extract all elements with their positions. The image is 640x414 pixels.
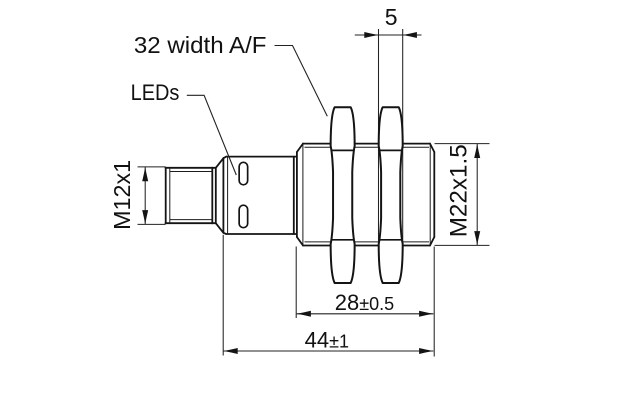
svg-text:5: 5 bbox=[385, 4, 398, 30]
svg-text:M12x1: M12x1 bbox=[109, 160, 135, 230]
svg-text:44±1: 44±1 bbox=[305, 328, 349, 353]
svg-text:32 width A/F: 32 width A/F bbox=[134, 32, 267, 58]
svg-text:28±0.5: 28±0.5 bbox=[335, 290, 394, 315]
svg-text:LEDs: LEDs bbox=[131, 80, 180, 105]
svg-text:M22x1.5: M22x1.5 bbox=[446, 144, 473, 237]
